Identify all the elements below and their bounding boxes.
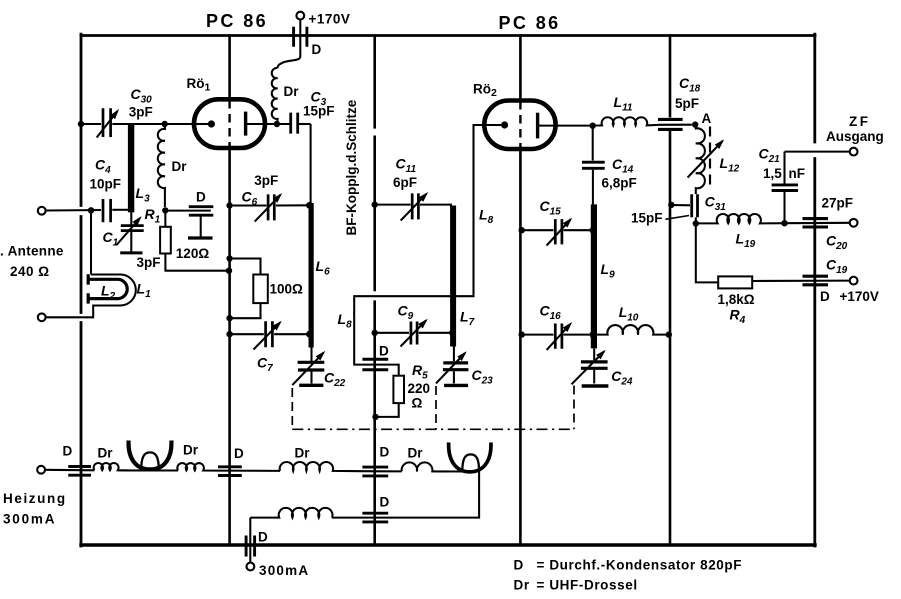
node junction dot X (695.8,223.5) — [693, 220, 699, 226]
wire 100ohm bottom — [230, 303, 261, 318]
wire C6 line y=205.5 — [230, 204, 309, 206]
svg-text:Dr: Dr — [514, 578, 530, 593]
node junction dot wall3 C11 wire — [372, 201, 378, 207]
svg-text:Dr: Dr — [183, 443, 199, 458]
inductor L9 (thick line section) — [591, 204, 597, 348]
wire R1 bottom to wall2 — [165, 254, 226, 271]
inductor L10 coil — [594, 325, 669, 335]
capacitor C30 arrow — [97, 111, 118, 138]
node junction dot at (165.3,210.4) — [162, 207, 168, 213]
node junction dot wall5 L10 — [666, 331, 672, 337]
heater filament Roe1 envelope (thick U) — [129, 441, 172, 470]
svg-text:300mA: 300mA — [3, 512, 56, 527]
choke Dr heater coil 2 — [177, 463, 218, 471]
inductor L11 coil — [593, 117, 658, 125]
resistor R5 body (220 ohm) — [393, 376, 404, 403]
wire from C3 down to L6 — [310, 124, 312, 204]
tube Roe2 cathode wire — [486, 124, 501, 126]
wire R1 top stub — [164, 210, 166, 226]
svg-text:nF: nF — [789, 166, 806, 181]
inductor L12 arrow — [688, 141, 723, 178]
svg-text:D: D — [63, 444, 73, 459]
capacitor D feedthrough left border (heater) plates — [68, 467, 91, 476]
terminal 300mA — [247, 563, 255, 571]
svg-text:6,8pF: 6,8pF — [602, 176, 637, 191]
capacitor C3 plates (15pF) — [291, 113, 298, 134]
capacitor D feedthrough wall2 (heater) plates — [218, 467, 242, 476]
svg-text:D: D — [379, 344, 389, 359]
wire C20 output — [785, 222, 851, 224]
capacitor C9 plates — [411, 322, 417, 345]
capacitor D (820pF bypass) wire — [165, 210, 211, 212]
choke Dr (anode) coil — [272, 68, 278, 124]
wire C16 line y=334.6 — [520, 334, 591, 336]
gang linkage dashed from C23 — [435, 386, 437, 429]
inductor L12 core dashed line — [709, 127, 711, 186]
svg-text:1,8kΩ: 1,8kΩ — [718, 292, 755, 307]
node junction dot on wall2 (229.6,270.7) — [226, 268, 232, 274]
wire heater to filament Roe2 — [433, 470, 462, 472]
capacitor C22 arrow — [292, 353, 323, 385]
heater filament Roe1 dome — [141, 452, 159, 470]
node junction dot anode Roe2 — [590, 123, 596, 129]
capacitor C1 lower stub — [130, 232, 132, 252]
shield wall 3 (slotted) — [373, 36, 376, 546]
capacitor C16 plates — [555, 324, 562, 349]
svg-text:Dr: Dr — [284, 84, 300, 99]
node junction dot wall2 100ohm bottom — [226, 315, 232, 321]
svg-text:3pF: 3pF — [129, 105, 153, 120]
wire ZF output top — [785, 151, 851, 153]
node junction dot wall5 C31 — [668, 202, 674, 208]
tube U2 Roe2 envelope — [484, 101, 555, 150]
capacitor C22 stub from L6 — [310, 348, 312, 362]
capacitor C22 chassis bar — [299, 384, 323, 387]
terminal ZF top — [850, 148, 858, 156]
svg-text:= UHF-Drossel: = UHF-Drossel — [537, 578, 638, 593]
svg-text:220: 220 — [408, 381, 431, 396]
svg-text:PC 86: PC 86 — [499, 13, 561, 33]
capacitor C23 lower stub — [453, 371, 455, 383]
svg-text:D: D — [380, 495, 390, 510]
capacitor C9 arrow — [401, 321, 427, 347]
svg-text:Dr: Dr — [172, 159, 188, 174]
inductor L2 inner coupling loop (thick) — [88, 274, 127, 303]
capacitor C20 plates (27pF feedthrough) — [803, 219, 829, 227]
tube Roe1 cathode wire — [196, 123, 208, 125]
resistor R4 body (1.8k) — [718, 276, 752, 288]
wire C4 to L3 — [112, 209, 128, 211]
capacitor C7 plates (trimmer) — [266, 321, 273, 347]
inductor L8 line from Roe2 grid — [354, 125, 484, 376]
capacitor C6 plates (3pF trimmer) — [268, 194, 274, 220]
node junction dot C21/C20 (784.5,223.2) — [781, 220, 787, 226]
gang linkage dashed from C24 — [573, 386, 575, 430]
label 15pF pointer line — [666, 216, 690, 220]
wire C11 line y=204.6 — [375, 205, 451, 207]
wire C9 line y=332.8 — [375, 332, 451, 334]
capacitor C23 chassis bar — [444, 384, 468, 387]
node L9/L10 blob — [590, 331, 597, 338]
wire C3 right to corner — [299, 123, 311, 125]
capacitor D feedthrough bottom border (300mA) plates — [246, 536, 255, 557]
terminal Heizung — [37, 466, 45, 474]
node junction dot wall2 C6 wire — [226, 202, 232, 208]
capacitor D feedthrough wall3 (heater) plates — [362, 467, 388, 476]
capacitor C4 plates (10pF) — [103, 199, 111, 222]
wire heater compartment2 — [218, 470, 280, 472]
capacitor C16 arrow — [547, 324, 571, 350]
node junction dot wall4 C15 wire — [519, 227, 525, 233]
wire C15 line y=230.2 — [520, 229, 591, 231]
wire C4 left stub — [91, 209, 101, 211]
svg-text:D: D — [820, 289, 830, 304]
capacitor C24 stub — [593, 348, 595, 360]
wire L12/C31 node down — [695, 217, 697, 223]
svg-text:ZF: ZF — [849, 114, 871, 129]
capacitor C14 plates (6.8pF) — [582, 162, 605, 168]
svg-text:= Durchf.-Kondensator 820pF: = Durchf.-Kondensator 820pF — [537, 558, 743, 573]
capacitor C1 plates (3pF trimmer) — [121, 226, 144, 231]
capacitor C1 arrow — [117, 218, 141, 245]
wire R5 bottom to wall3 — [376, 403, 399, 417]
svg-text:Ω: Ω — [412, 396, 423, 411]
svg-text:Dr: Dr — [295, 446, 311, 461]
wire Heizung lead — [45, 469, 94, 472]
choke Dr heater coil 3 — [280, 462, 362, 471]
capacitor C14 lower stub — [592, 170, 594, 205]
svg-text:240 Ω: 240 Ω — [10, 264, 50, 279]
svg-text:BF-Kopplg.d.Schlitze: BF-Kopplg.d.Schlitze — [344, 99, 359, 235]
wire L11 to node A through C18 — [658, 124, 692, 126]
capacitor C23 arrow — [436, 353, 465, 383]
wire R4 from node X — [696, 224, 718, 283]
heater filament Roe2 dome — [462, 454, 479, 471]
capacitor C1 chassis bar — [120, 251, 142, 254]
heater filament Roe2 envelope (thick U) — [449, 442, 491, 472]
shield wall 4 (through tube Roe2) — [519, 36, 522, 546]
capacitor C22 lower stub — [310, 372, 312, 384]
svg-text:10pF: 10pF — [90, 177, 122, 192]
choke Dr (grid) vertical coil — [158, 124, 165, 207]
wire heater compartment3 — [362, 470, 402, 472]
wire antenna top lead — [46, 209, 91, 211]
wire C7 line y=334.2 — [230, 333, 309, 335]
svg-text:+170V: +170V — [309, 12, 351, 27]
svg-text:15pF: 15pF — [631, 211, 663, 226]
wire filament Roe2 return down — [332, 472, 479, 518]
capacitor C24 lower stub — [593, 370, 595, 384]
node junction dot at (164.7,124) — [162, 121, 168, 127]
capacitor C21 upper stub — [783, 152, 785, 184]
tube U1 Roe1 envelope — [194, 99, 265, 148]
capacitor D feedthrough wall3 (heater return) plates — [362, 513, 388, 522]
wire antenna down to loop — [90, 210, 92, 274]
capacitor C11 arrow — [401, 194, 427, 221]
svg-text:5pF: 5pF — [675, 96, 699, 111]
svg-text:Heizung: Heizung — [3, 491, 67, 506]
svg-text:Dr: Dr — [98, 446, 114, 461]
chassis left border — [80, 34, 83, 546]
antenna terminal bottom — [38, 313, 46, 321]
wire C31 ground to wall5 — [670, 204, 690, 206]
resistor R1 body — [160, 227, 171, 254]
capacitor C24 plates (tuning) — [581, 362, 608, 368]
svg-text:D: D — [312, 42, 322, 57]
shield wall 5 — [669, 36, 672, 546]
tube Roe2 grid (dashed, part of wall 4) — [519, 101, 521, 149]
capacitor C24 arrow — [572, 352, 605, 385]
svg-text:D: D — [380, 445, 390, 460]
svg-text:1,5: 1,5 — [763, 166, 782, 181]
capacitor C23 plates (tuning) — [443, 363, 469, 370]
choke heater return coil — [250, 508, 332, 518]
capacitor C21 lower stub — [783, 192, 785, 223]
wire heater under filament — [118, 469, 178, 471]
shield wall 2 (through tube Roe1) — [228, 36, 231, 546]
capacitor C23 stub — [453, 347, 455, 362]
inductor L1 outer loop — [46, 275, 136, 318]
svg-text:PC 86: PC 86 — [206, 11, 268, 31]
svg-text:+170V: +170V — [840, 289, 879, 304]
wire R4 to +170V feedthrough — [752, 280, 850, 282]
wire anode gap for C3 — [289, 123, 290, 125]
resistor 100ohm body — [253, 275, 267, 304]
svg-text:Ausgang: Ausgang — [826, 129, 884, 144]
capacitor D plates — [189, 207, 214, 216]
node junction dot anode (276.9,124) — [274, 121, 280, 127]
svg-text:15pF: 15pF — [303, 104, 335, 119]
node A dot — [692, 121, 698, 127]
svg-text:. Antenne: . Antenne — [0, 244, 64, 259]
capacitor D feedthrough at +170V (plates) — [294, 27, 307, 47]
capacitor C15 arrow — [547, 220, 571, 246]
capacitor C31 plates (15pF trimmer) — [692, 194, 698, 217]
antenna terminal top — [38, 207, 46, 215]
tube Roe2 anode wire — [539, 125, 593, 127]
capacitor C24 chassis bar — [582, 384, 609, 387]
capacitor C30 plates (3pF trimmer) — [103, 108, 111, 137]
node junction dot wall3 C9 wire — [372, 330, 378, 336]
chassis top border — [81, 34, 815, 37]
inductor L3 (thick line section) — [128, 123, 134, 212]
svg-text:3pF: 3pF — [254, 173, 278, 188]
tube Roe1 anode wire — [247, 123, 289, 125]
svg-text:6pF: 6pF — [393, 175, 417, 190]
tube Roe2 cathode dot — [501, 121, 508, 128]
capacitor C14 upper stub — [592, 126, 594, 161]
node grid-line y124 junction on left border — [78, 121, 84, 127]
capacitor C11 plates (6pF) — [412, 193, 418, 219]
terminal C20 output — [850, 219, 858, 227]
terminal +170V — [296, 12, 304, 20]
node L6 top blob — [306, 202, 313, 209]
wire grid line y=124 — [81, 123, 196, 125]
node L7/C9 blob — [449, 329, 456, 336]
inductor L12 variable coil — [695, 125, 705, 194]
node L9/C15 blob — [590, 227, 597, 234]
capacitor C18 plates (5pF feedthrough in wall5) — [658, 119, 683, 129]
capacitor D chassis bar — [188, 236, 213, 239]
svg-text:100Ω: 100Ω — [270, 282, 304, 297]
gang linkage dash-dot horizontal — [292, 428, 574, 430]
capacitor C15 plates — [555, 219, 562, 244]
tube Roe1 cathode dot — [208, 120, 215, 127]
capacitor C19 plates (820pF feedthrough) — [803, 276, 829, 285]
svg-text:D: D — [196, 190, 206, 205]
wire +170V drop — [278, 20, 301, 69]
capacitor D stub — [200, 216, 202, 236]
svg-text:3pF: 3pF — [137, 255, 161, 270]
capacitor C21 plates (1.5nF) — [772, 185, 798, 191]
choke Dr heater coil 1 — [94, 463, 127, 470]
inductor L6 (thick line section) — [309, 203, 314, 348]
chassis right border — [813, 34, 816, 546]
node L6/C7 blob — [306, 331, 313, 338]
svg-text:D: D — [514, 558, 524, 573]
capacitor C22 plates (tuning) — [298, 362, 325, 370]
node junction dot wall4 C16 wire — [519, 331, 525, 337]
node junction dot wall2 100ohm top — [226, 255, 232, 261]
svg-text:A: A — [702, 111, 712, 126]
tube Roe1 anode plate — [244, 112, 247, 136]
wire 100ohm top — [230, 259, 261, 275]
chassis bottom border — [81, 543, 815, 546]
svg-text:120Ω: 120Ω — [176, 246, 210, 261]
svg-text:27pF: 27pF — [822, 196, 854, 211]
svg-text:Dr: Dr — [408, 446, 424, 461]
inductor L7 (thick line section) — [450, 206, 456, 347]
inductor L19 coil — [696, 214, 785, 223]
wire heater return to bottom feedthrough — [249, 518, 251, 563]
capacitor D feedthrough wall3 (L8' wire) plates — [362, 359, 388, 369]
tube Roe2 anode plate — [536, 113, 539, 139]
node junction dot wall3 R5 — [372, 414, 378, 420]
svg-text:300mA: 300mA — [259, 563, 309, 578]
svg-text:D: D — [234, 446, 244, 461]
capacitor C6 arrow — [255, 195, 281, 222]
svg-text:D: D — [258, 530, 268, 545]
capacitor C7 arrow — [254, 323, 281, 350]
node junction dot wall2 C7 wire — [226, 331, 232, 337]
terminal +170V right — [850, 277, 858, 285]
node junction dot at (91,210.3) — [88, 207, 94, 213]
capacitor C1 stub from L3 — [130, 212, 132, 224]
choke Dr heater coil 4 — [402, 462, 447, 471]
tube Roe1 grid (dashed, part of wall 2) — [228, 100, 230, 148]
gang linkage dashed from C22 — [291, 388, 293, 429]
